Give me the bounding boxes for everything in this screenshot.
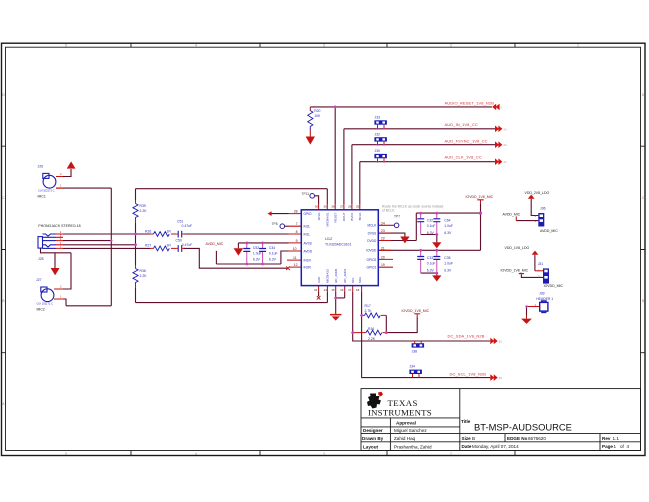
svg-text:AVDD_MIC: AVDD_MIC xyxy=(503,213,521,217)
svg-text:MIC2: MIC2 xyxy=(37,308,45,312)
svg-text:29: 29 xyxy=(324,205,328,209)
svg-text:GPIO1: GPIO1 xyxy=(367,266,377,270)
svg-text:12: 12 xyxy=(294,263,298,267)
svg-text:Drawn By: Drawn By xyxy=(362,436,384,441)
svg-text:5: 5 xyxy=(65,452,67,456)
svg-text:DVSS: DVSS xyxy=(368,232,377,236)
svg-text:1R: 1R xyxy=(167,244,172,248)
svg-text:AVDD: AVDD xyxy=(304,249,313,253)
svg-text:16: 16 xyxy=(340,288,344,292)
svg-text:IOVDD_1V8_MIC: IOVDD_1V8_MIC xyxy=(466,195,494,199)
svg-text:AUDIO_RESET_1V8_N2B: AUDIO_RESET_1V8_N2B xyxy=(445,100,495,105)
svg-text:Prashantha, Zahid: Prashantha, Zahid xyxy=(394,445,432,450)
svg-text:SDA: SDA xyxy=(358,277,362,283)
svg-text:1: 1 xyxy=(577,44,579,48)
svg-text:R17: R17 xyxy=(365,304,371,308)
svg-text:22: 22 xyxy=(381,237,385,241)
svg-text:J28: J28 xyxy=(38,257,44,261)
svg-text:14: 14 xyxy=(324,288,328,292)
svg-text:1.0uF: 1.0uF xyxy=(253,251,262,255)
svg-text:C34: C34 xyxy=(269,246,275,250)
svg-text:RESET: RESET xyxy=(333,212,337,222)
svg-text:Zahid Haq: Zahid Haq xyxy=(394,436,416,441)
svg-text:10: 10 xyxy=(293,247,297,251)
svg-text:24: 24 xyxy=(381,221,385,225)
svg-text:B1: B1 xyxy=(499,340,503,344)
svg-text:C33: C33 xyxy=(427,256,433,260)
svg-text:25: 25 xyxy=(356,205,360,209)
svg-text:C51: C51 xyxy=(177,219,183,223)
svg-text:CUI 102171 C: CUI 102171 C xyxy=(37,302,54,306)
svg-text:J36: J36 xyxy=(540,207,546,211)
svg-text:BCLK: BCLK xyxy=(358,213,362,221)
svg-text:MICBIAS1: MICBIAS1 xyxy=(326,212,330,226)
svg-text:TP8: TP8 xyxy=(272,222,278,226)
svg-text:DVDD: DVDD xyxy=(367,239,377,243)
svg-text:Page: Page xyxy=(602,444,613,449)
svg-text:R20: R20 xyxy=(314,109,320,113)
svg-text:C: C xyxy=(642,196,645,200)
svg-text:2.2K: 2.2K xyxy=(140,274,148,278)
svg-text:AUD_FSYNC_1V8_CC: AUD_FSYNC_1V8_CC xyxy=(445,138,488,143)
svg-text:DC_SCL_1V8_N2B: DC_SCL_1V8_N2B xyxy=(450,371,487,376)
svg-text:C52: C52 xyxy=(253,246,259,250)
svg-text:6.3V: 6.3V xyxy=(427,268,435,272)
svg-text:Miguel Sanchez: Miguel Sanchez xyxy=(394,428,427,433)
svg-text:GPIO: GPIO xyxy=(304,212,312,216)
svg-text:VDD_1V8_LDO: VDD_1V8_LDO xyxy=(505,246,530,250)
svg-text:J38: J38 xyxy=(412,350,418,354)
svg-text:19: 19 xyxy=(381,263,385,267)
svg-text:IN2L: IN2L xyxy=(304,225,311,229)
svg-text:D: D xyxy=(642,93,645,97)
svg-text:Layout: Layout xyxy=(363,445,379,450)
svg-text:1: 1 xyxy=(614,444,617,449)
svg-text:MICBIAS2: MICBIAS2 xyxy=(326,269,330,283)
svg-text:0.1uF: 0.1uF xyxy=(427,262,436,266)
svg-text:IOVDD: IOVDD xyxy=(366,249,377,253)
svg-text:R36: R36 xyxy=(140,269,146,273)
svg-text:R27: R27 xyxy=(145,244,151,248)
svg-text:IOVDD_1V8_MIC: IOVDD_1V8_MIC xyxy=(402,309,430,313)
svg-text:21: 21 xyxy=(381,246,385,250)
svg-text:INSTRUMENTS: INSTRUMENTS xyxy=(368,408,432,418)
svg-text:AVDD_MIC: AVDD_MIC xyxy=(540,229,558,233)
svg-text:6.3V: 6.3V xyxy=(444,231,452,235)
svg-text:A2: A2 xyxy=(504,127,508,131)
svg-text:J33: J33 xyxy=(375,116,381,120)
svg-text:17: 17 xyxy=(348,288,352,292)
svg-text:SCLK: SCLK xyxy=(317,213,321,221)
svg-text:A2: A2 xyxy=(504,160,508,164)
svg-text:0.1uF: 0.1uF xyxy=(427,224,436,228)
svg-text:6.3V: 6.3V xyxy=(269,258,277,262)
svg-text:D: D xyxy=(2,93,5,97)
svg-text:Date: Date xyxy=(462,444,472,449)
svg-text:VDD_2V8_LDO: VDD_2V8_LDO xyxy=(525,191,550,195)
svg-text:AVSS: AVSS xyxy=(304,241,312,245)
svg-text:CUI 102171 C: CUI 102171 C xyxy=(38,188,55,192)
svg-text:BVDX: BVDX xyxy=(350,213,354,221)
svg-text:3: 3 xyxy=(323,44,325,48)
svg-text:HEADER 1: HEADER 1 xyxy=(536,297,553,301)
svg-text:J26: J26 xyxy=(38,165,44,169)
svg-text:23: 23 xyxy=(381,229,385,233)
svg-text:1.0uF: 1.0uF xyxy=(444,262,453,266)
svg-text:TEXAS: TEXAS xyxy=(388,398,418,408)
svg-text:5: 5 xyxy=(65,44,67,48)
svg-text:AUD: AUD xyxy=(317,276,321,283)
svg-text:11: 11 xyxy=(293,256,297,260)
svg-text:C64: C64 xyxy=(444,219,450,223)
svg-text:28: 28 xyxy=(294,210,298,214)
svg-text:R26: R26 xyxy=(145,229,151,233)
svg-text:8: 8 xyxy=(296,230,298,234)
svg-text:U12: U12 xyxy=(325,236,333,241)
svg-text:6.3V: 6.3V xyxy=(427,231,435,235)
svg-text:Designer: Designer xyxy=(363,428,383,433)
svg-text:BT-MSP-AUDSOURCE: BT-MSP-AUDSOURCE xyxy=(474,421,572,432)
svg-text:2.2K: 2.2K xyxy=(140,209,148,213)
svg-text:J34: J34 xyxy=(409,365,415,369)
svg-text:3: 3 xyxy=(323,452,325,456)
svg-text:TP11: TP11 xyxy=(302,192,310,196)
svg-text:J32: J32 xyxy=(375,133,381,137)
svg-text:2.2K: 2.2K xyxy=(368,337,376,341)
svg-text:AUD_CLK_1V8_CC: AUD_CLK_1V8_CC xyxy=(445,155,482,160)
svg-text:10K: 10K xyxy=(314,114,321,118)
svg-text:R16: R16 xyxy=(368,327,374,331)
svg-text:C32: C32 xyxy=(427,219,433,223)
svg-text:TLV320ADC3101: TLV320ADC3101 xyxy=(325,243,351,247)
svg-text:TP7: TP7 xyxy=(394,215,400,219)
svg-text:IN1R: IN1R xyxy=(304,259,312,263)
svg-text:Size: Size xyxy=(462,436,472,441)
svg-text:IOVDD_MIC: IOVDD_MIC xyxy=(544,284,564,288)
svg-text:31: 31 xyxy=(314,288,318,292)
svg-text:J31: J31 xyxy=(538,262,544,266)
svg-text:B1: B1 xyxy=(499,376,503,380)
svg-text:J30: J30 xyxy=(375,149,381,153)
svg-text:IOVDD_1V8_MIC: IOVDD_1V8_MIC xyxy=(501,268,529,272)
svg-text:J39: J39 xyxy=(539,292,545,296)
svg-text:AUD_IN_1V8_CC: AUD_IN_1V8_CC xyxy=(445,122,478,127)
svg-text:28: 28 xyxy=(331,205,335,209)
svg-text:1.0uF: 1.0uF xyxy=(444,224,453,228)
svg-text:6.3V: 6.3V xyxy=(444,268,452,272)
svg-text:20: 20 xyxy=(381,255,385,259)
svg-text:MCLK: MCLK xyxy=(367,224,377,228)
svg-text:Title: Title xyxy=(461,419,471,424)
svg-text:of BCLK: of BCLK xyxy=(382,209,395,213)
svg-text:0.47uF: 0.47uF xyxy=(182,224,193,228)
svg-text:1.1: 1.1 xyxy=(613,436,620,441)
svg-text:4: 4 xyxy=(195,452,197,456)
svg-text:J27: J27 xyxy=(36,278,42,282)
svg-text:30: 30 xyxy=(315,205,319,209)
svg-text:2: 2 xyxy=(450,44,452,48)
svg-text:DC_SDA_1V8_N2B: DC_SDA_1V8_N2B xyxy=(448,334,485,339)
svg-text:26: 26 xyxy=(348,205,352,209)
svg-text:EDGE No: EDGE No xyxy=(507,436,528,441)
svg-text:0.1uF: 0.1uF xyxy=(269,251,278,255)
svg-text:2: 2 xyxy=(450,452,452,456)
svg-text:Approval: Approval xyxy=(396,421,416,426)
svg-text:AVDD_MIC: AVDD_MIC xyxy=(206,242,224,246)
svg-text:GPIO2: GPIO2 xyxy=(367,258,377,262)
svg-text:A2: A2 xyxy=(504,143,508,147)
svg-text:R39: R39 xyxy=(140,204,146,208)
svg-text:Rev: Rev xyxy=(602,436,611,441)
svg-text:7: 7 xyxy=(296,222,298,226)
svg-text:DOUT: DOUT xyxy=(342,212,346,221)
svg-text:B: B xyxy=(472,436,475,441)
svg-text:6576620: 6576620 xyxy=(528,436,546,441)
svg-text:9: 9 xyxy=(296,239,298,243)
svg-text:6.3V: 6.3V xyxy=(253,258,261,262)
svg-text:I2C_ADR0: I2C_ADR0 xyxy=(334,268,338,283)
svg-text:2.7K: 2.7K xyxy=(365,309,373,313)
svg-text:SCL: SCL xyxy=(351,277,355,283)
svg-text:IN1L: IN1L xyxy=(304,232,311,236)
svg-text:C35: C35 xyxy=(444,256,450,260)
svg-text:C: C xyxy=(2,196,5,200)
svg-text:18: 18 xyxy=(356,288,360,292)
svg-text:IN2R: IN2R xyxy=(304,266,312,270)
svg-text:27: 27 xyxy=(340,205,344,209)
svg-text:0.47uF: 0.47uF xyxy=(182,243,193,247)
svg-text:15: 15 xyxy=(331,288,335,292)
svg-text:4: 4 xyxy=(627,444,630,449)
svg-text:PHONOJACK STEREO-18: PHONOJACK STEREO-18 xyxy=(38,224,80,228)
svg-text:I2C_ADR1: I2C_ADR1 xyxy=(343,268,347,283)
svg-text:4: 4 xyxy=(195,44,197,48)
svg-text:MIC1: MIC1 xyxy=(38,195,46,199)
svg-text:Monday, April 07, 2014: Monday, April 07, 2014 xyxy=(472,444,519,449)
svg-text:1R: 1R xyxy=(167,229,172,233)
